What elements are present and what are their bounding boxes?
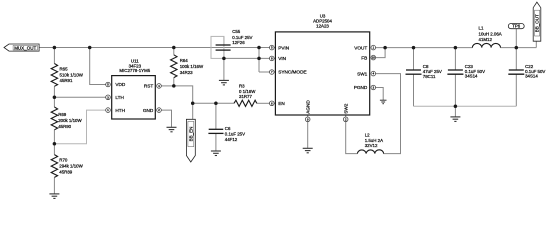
svg-text:12A23: 12A23 (316, 23, 329, 28)
svg-text:MUX_OUT: MUX_OUT (14, 45, 36, 50)
svg-text:R69: R69 (58, 112, 67, 117)
svg-text:RST: RST (144, 84, 154, 89)
svg-text:10: 10 (372, 56, 376, 60)
svg-text:44F12: 44F12 (225, 137, 238, 142)
svg-text:HTH: HTH (115, 108, 125, 113)
svg-text:R70: R70 (59, 158, 68, 163)
svg-text:0.1uF 25V: 0.1uF 25V (225, 131, 245, 136)
svg-text:R64: R64 (180, 58, 189, 63)
svg-text:LTH: LTH (115, 95, 124, 100)
svg-text:C22: C22 (525, 64, 534, 69)
svg-text:C55: C55 (232, 29, 241, 34)
svg-text:45R91: 45R91 (60, 78, 73, 83)
svg-text:R65: R65 (60, 67, 69, 72)
svg-text:PVIN: PVIN (278, 45, 289, 50)
svg-text:R3: R3 (239, 83, 245, 88)
svg-text:41M12: 41M12 (479, 37, 493, 42)
svg-text:78C11: 78C11 (423, 74, 436, 79)
svg-text:GND: GND (143, 108, 154, 113)
svg-text:294k 1/10W: 294k 1/10W (59, 163, 83, 168)
svg-text:SW1: SW1 (357, 71, 368, 76)
svg-text:FB: FB (361, 55, 367, 60)
svg-text:31R77: 31R77 (239, 94, 252, 99)
svg-text:EN: EN (278, 101, 285, 106)
svg-text:VIN: VIN (278, 56, 286, 61)
svg-text:32V12: 32V12 (365, 143, 378, 148)
svg-text:BB_OUT: BB_OUT (535, 14, 540, 32)
svg-text:PGND: PGND (354, 85, 368, 90)
svg-text:C6: C6 (225, 126, 231, 131)
svg-text:BB_EN: BB_EN (189, 127, 194, 142)
svg-text:45R89: 45R89 (59, 169, 72, 174)
svg-text:10uH 2.06A: 10uH 2.06A (479, 31, 502, 36)
svg-text:VOUT: VOUT (354, 45, 367, 50)
svg-text:100k 1/16W: 100k 1/16W (180, 64, 204, 69)
svg-text:SW2: SW2 (343, 103, 348, 114)
svg-text:34S14: 34S14 (525, 74, 538, 79)
svg-text:L2: L2 (365, 133, 370, 138)
svg-text:VDD: VDD (115, 82, 126, 87)
svg-text:TP6: TP6 (512, 24, 520, 29)
svg-text:510k 1/10W: 510k 1/10W (60, 72, 84, 77)
svg-text:AGND: AGND (305, 100, 310, 114)
svg-text:200k 1/10W: 200k 1/10W (58, 118, 82, 123)
svg-text:MIC2778-1YM5: MIC2778-1YM5 (119, 68, 150, 73)
svg-text:SYNC/MODE: SYNC/MODE (278, 70, 306, 75)
svg-text:L1: L1 (479, 26, 484, 31)
svg-text:45R90: 45R90 (58, 124, 71, 129)
svg-text:0 1/16W: 0 1/16W (239, 89, 256, 94)
svg-text:12F26: 12F26 (232, 40, 245, 45)
svg-text:34S14: 34S14 (465, 74, 478, 79)
svg-text:C23: C23 (465, 64, 474, 69)
svg-text:34R23: 34R23 (180, 70, 193, 75)
